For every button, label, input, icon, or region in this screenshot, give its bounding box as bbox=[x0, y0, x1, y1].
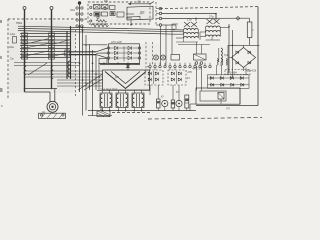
contactor contact bbox=[49, 37, 55, 40]
terminal circle bbox=[184, 65, 186, 67]
scan haze center bbox=[100, 44, 160, 90]
relay box bbox=[110, 6, 116, 10]
relay box dark bbox=[94, 12, 100, 16]
wire stub bbox=[101, 108, 103, 111]
wire bbox=[189, 104, 191, 111]
terminal circle bbox=[159, 7, 162, 10]
wire diagonal bbox=[28, 51, 49, 56]
transformer 2Тр winding bbox=[206, 31, 221, 32]
diode bbox=[171, 78, 174, 81]
wire bbox=[110, 47, 114, 49]
wire row bbox=[25, 70, 103, 72]
svg-text:АВВ-4СФ: АВВ-4СФ bbox=[246, 70, 256, 73]
fuse box bbox=[13, 37, 17, 44]
contactor contact bbox=[49, 33, 55, 36]
terminal circle bbox=[149, 65, 151, 67]
diode bbox=[115, 56, 118, 60]
relay box dark bbox=[110, 12, 115, 16]
diode bbox=[128, 56, 131, 60]
contactor contact bbox=[49, 41, 55, 44]
panel boundary dashed bottom-left bbox=[112, 112, 150, 114]
winding small bbox=[222, 59, 223, 66]
wire bbox=[49, 92, 51, 102]
transformer ТрС x106 winding R bbox=[110, 94, 112, 107]
wire bus L2 bbox=[18, 28, 184, 31]
relay panel boundary bbox=[88, 2, 150, 24]
wire bbox=[99, 62, 140, 64]
wire bbox=[178, 44, 210, 46]
wire feeder 1 bbox=[24, 10, 26, 93]
wire vertical bbox=[232, 30, 234, 78]
wire vertical bbox=[79, 4, 81, 92]
wire vertical bbox=[201, 66, 203, 91]
diode bbox=[211, 83, 214, 86]
wire to ЩУ bbox=[128, 3, 150, 5]
relay КЛ bbox=[218, 93, 224, 100]
machine base hatch bbox=[41, 113, 45, 118]
wire diagonal bbox=[28, 63, 47, 75]
terminal circle bbox=[107, 57, 109, 59]
panel ДВ step bbox=[127, 17, 140, 20]
resistor R bbox=[247, 22, 252, 38]
wire bbox=[171, 24, 173, 54]
amplifier box bbox=[103, 70, 150, 90]
bridge diode bbox=[236, 61, 239, 64]
svg-text:ЗА1: ЗА1 bbox=[70, 8, 76, 12]
bridge diode bbox=[248, 51, 251, 54]
wire bottom bbox=[196, 105, 258, 107]
base bolt bbox=[40, 114, 42, 116]
terminal circle bbox=[179, 65, 181, 67]
transformer 2Тр frame bbox=[205, 28, 207, 37]
wire row bbox=[20, 45, 71, 47]
winding ТрК bbox=[221, 48, 222, 62]
relay box hatched bbox=[102, 5, 109, 10]
transformer 1Тр core X bbox=[184, 22, 190, 27]
relay box bbox=[99, 59, 107, 64]
wire bbox=[54, 89, 56, 103]
contactor contact bbox=[22, 41, 28, 44]
diode bbox=[115, 51, 118, 55]
wire feeder 3 bbox=[66, 31, 68, 79]
panel boundary dashed top-left bbox=[8, 18, 88, 20]
wire bus L1 bbox=[18, 26, 184, 30]
boundary dashed bbox=[152, 42, 154, 66]
svg-text:1Ав: 1Ав bbox=[10, 32, 15, 36]
resistor zigzag bbox=[96, 20, 107, 23]
component box ЧАГС bbox=[194, 54, 207, 60]
panel boundary dashed bottom-right bbox=[148, 118, 262, 120]
wire bus L3 bbox=[18, 31, 184, 35]
svg-text:ДВ: ДВ bbox=[139, 11, 145, 15]
terminal circle bbox=[138, 47, 140, 49]
wire bbox=[220, 99, 222, 104]
component rect bbox=[157, 99, 161, 108]
transformer ТрС x138 winding R bbox=[142, 94, 144, 107]
winding small bbox=[217, 59, 218, 66]
transformer 1Тр winding bbox=[184, 37, 199, 38]
wire bbox=[123, 46, 125, 62]
wire stub bbox=[149, 85, 151, 95]
svg-text:ЧАГС-2Т: ЧАГС-2Т bbox=[192, 68, 202, 71]
terminal circle bbox=[50, 7, 53, 10]
wire vertical bbox=[98, 63, 100, 90]
transformer ТрС x138 frame bbox=[132, 93, 144, 108]
contactor contact bbox=[49, 53, 55, 56]
terminal circle bbox=[107, 47, 109, 49]
wire bbox=[229, 57, 232, 59]
terminal circle bbox=[169, 65, 171, 67]
bridge diamond bbox=[232, 48, 256, 68]
node dot bbox=[102, 110, 104, 112]
relay contact bbox=[97, 16, 99, 18]
wire stub bbox=[172, 85, 174, 100]
wire feeder 4 bbox=[70, 26, 72, 79]
diode row frame bbox=[208, 75, 250, 89]
wire row bbox=[57, 82, 103, 84]
node dot bbox=[134, 110, 136, 112]
transformer ТрС x106 core bbox=[104, 94, 106, 107]
node dot bbox=[118, 110, 120, 112]
diode bbox=[178, 72, 181, 75]
wire vertical bbox=[82, 26, 84, 116]
node dot bbox=[173, 29, 175, 31]
scan haze top cluster bbox=[89, 3, 149, 24]
relay box bbox=[117, 12, 124, 17]
node dot bbox=[195, 18, 197, 20]
wire bbox=[249, 14, 251, 23]
diode bbox=[126, 64, 129, 67]
wire stub bbox=[101, 90, 103, 93]
terminal circle bbox=[194, 65, 196, 67]
boundary dashed bbox=[145, 42, 147, 70]
wire bbox=[127, 63, 129, 70]
transformer 2Тр core X bbox=[207, 19, 213, 24]
wire bbox=[162, 24, 176, 26]
svg-text:ДТ: ДТ bbox=[114, 75, 119, 79]
wire bbox=[96, 52, 107, 54]
wire row bbox=[20, 42, 71, 44]
component box bbox=[171, 55, 180, 61]
wire vertical bbox=[221, 65, 223, 75]
bridge diode bbox=[248, 61, 251, 64]
terminal circle bbox=[164, 65, 166, 67]
diode bbox=[178, 78, 181, 81]
wire bbox=[126, 13, 134, 15]
relay box hatched bbox=[94, 5, 101, 10]
terminal strip dashed bbox=[155, 2, 157, 26]
wire row bbox=[20, 51, 71, 53]
contactor contact bbox=[22, 37, 28, 40]
terminal circle bbox=[199, 65, 201, 67]
component rect bbox=[185, 95, 189, 108]
diode bbox=[115, 46, 118, 50]
diode bbox=[220, 76, 223, 79]
wire bbox=[220, 62, 222, 66]
node dot bbox=[78, 1, 81, 4]
wire bbox=[208, 77, 250, 79]
machine base bbox=[39, 113, 66, 118]
wire vertical bbox=[165, 25, 167, 65]
rectifier box dashed bbox=[145, 70, 163, 85]
transformer ТрС x106 frame bbox=[100, 93, 112, 108]
wire bus thick bbox=[71, 54, 97, 56]
wire bbox=[195, 19, 197, 22]
box dashed label bbox=[225, 70, 250, 75]
motor Д middle bbox=[49, 104, 55, 110]
wire bbox=[153, 71, 155, 84]
svg-text:2Ав: 2Ав bbox=[9, 45, 14, 49]
wire row bbox=[25, 73, 103, 75]
tube РУ bbox=[176, 100, 182, 106]
cabinet box inner bbox=[200, 91, 226, 101]
scan speck bbox=[0, 88, 3, 92]
contactor contact bbox=[49, 49, 55, 52]
diode bbox=[128, 46, 131, 50]
wire vertical bbox=[228, 24, 230, 72]
terminal circle bbox=[107, 52, 109, 54]
wire stub bbox=[117, 108, 119, 111]
node dot bbox=[79, 25, 81, 27]
transformer 2Тр winding bbox=[206, 26, 221, 27]
wire feeder 2 bbox=[51, 10, 53, 89]
panel boundary dashed left bbox=[7, 19, 9, 98]
wire row bbox=[20, 33, 71, 35]
transformer 1Тр frame bbox=[183, 30, 185, 38]
svg-text:4Х: 4Х bbox=[187, 77, 190, 80]
panel ДВ outline bbox=[127, 6, 153, 20]
wire diagonal bbox=[28, 39, 49, 44]
node dot bbox=[82, 79, 84, 81]
contactor contact bbox=[65, 50, 69, 56]
diode bbox=[148, 72, 151, 75]
wire bbox=[243, 71, 245, 75]
wire row bbox=[20, 36, 71, 38]
node dot bbox=[103, 63, 105, 65]
wire stub bbox=[196, 42, 198, 54]
wire diagonal bbox=[55, 40, 71, 45]
terminal circle bbox=[90, 13, 92, 15]
wire diagonal bbox=[55, 52, 71, 56]
wire bbox=[243, 45, 245, 47]
scan speck bbox=[0, 56, 2, 59]
diode bbox=[230, 76, 233, 79]
diode bbox=[241, 83, 244, 86]
svg-text:1Тр: 1Тр bbox=[187, 18, 192, 22]
diode bbox=[128, 51, 131, 55]
wire diagonal bbox=[84, 79, 103, 90]
wire vertical bbox=[85, 35, 87, 111]
wire bbox=[176, 71, 178, 84]
amplifier V bbox=[105, 72, 146, 89]
contactor contact bbox=[22, 45, 28, 48]
wire bus thick bbox=[71, 51, 97, 53]
svg-text:2Тр: 2Тр bbox=[209, 15, 214, 19]
resistor zigzag bbox=[91, 24, 109, 27]
bridge frame bbox=[228, 44, 260, 46]
wire row bbox=[20, 57, 71, 59]
wire row bbox=[14, 62, 80, 64]
plug contact bbox=[76, 25, 78, 27]
wire vertical bbox=[239, 88, 241, 104]
wire bbox=[147, 66, 149, 68]
plug contact bbox=[76, 19, 78, 21]
terminal circle bbox=[174, 65, 176, 67]
transformer ТрС x122 winding R bbox=[126, 94, 128, 107]
wire bbox=[215, 14, 217, 21]
wire row bbox=[57, 79, 103, 81]
terminal circle bbox=[159, 65, 161, 67]
wire bbox=[83, 44, 108, 46]
wire bbox=[206, 39, 221, 41]
wire bbox=[88, 115, 112, 117]
wire row bbox=[25, 76, 103, 78]
wire bbox=[100, 64, 140, 66]
diode bbox=[240, 76, 243, 79]
cabinet box outer bbox=[196, 88, 240, 104]
scan speck bbox=[1, 105, 3, 107]
wire bbox=[200, 31, 206, 33]
transformer ТрС x106 winding L bbox=[100, 94, 102, 107]
transformer 1Тр winding bbox=[184, 33, 199, 34]
rectifier АГС box bbox=[109, 44, 140, 64]
relay coil bbox=[154, 55, 159, 60]
coil winding bbox=[68, 61, 70, 77]
contactor contact bbox=[49, 45, 55, 48]
wire vertical bbox=[196, 66, 198, 91]
wire vertical bbox=[92, 50, 94, 116]
tube КУ bbox=[162, 100, 168, 106]
diode bbox=[148, 78, 151, 81]
transformer ТрС x122 frame bbox=[116, 93, 128, 108]
contactor contact bbox=[22, 33, 28, 36]
transformer ТрС x138 core bbox=[136, 94, 138, 107]
panel boundary right bbox=[257, 7, 259, 106]
wire row bbox=[20, 48, 71, 50]
diode bbox=[210, 76, 213, 79]
contactor contact bbox=[49, 57, 55, 60]
wire stub bbox=[157, 108, 159, 111]
wire bbox=[176, 41, 198, 43]
wire bus bbox=[88, 110, 196, 112]
diode bbox=[155, 78, 158, 81]
svg-text:РЩ: РЩ bbox=[104, 0, 109, 3]
wire diagonal bbox=[78, 74, 103, 90]
amplifier V inner bbox=[111, 72, 140, 84]
transformer ТрС x138 winding L bbox=[132, 94, 134, 107]
contactor contact bbox=[22, 57, 28, 60]
relay box bbox=[102, 12, 108, 16]
motor Д outer bbox=[47, 101, 58, 112]
terminal circle bbox=[138, 57, 140, 59]
terminal circle bbox=[189, 65, 191, 67]
node dot bbox=[228, 26, 230, 28]
wire row bbox=[25, 88, 58, 90]
relay coil bbox=[161, 55, 166, 60]
wire stub bbox=[176, 37, 184, 39]
choke Др box bbox=[97, 111, 110, 117]
wire vertical bbox=[216, 65, 218, 75]
wire row bbox=[57, 85, 103, 87]
svg-text:АВВ АВН: АВВ АВН bbox=[227, 71, 237, 74]
contactor 1Ав hook bbox=[24, 62, 26, 75]
wire vertical bbox=[160, 27, 162, 66]
boundary dashed mid bbox=[75, 30, 77, 96]
svg-text:ЛЛ: ЛЛ bbox=[225, 107, 230, 111]
svg-text:АГС-10Р: АГС-10Р bbox=[111, 40, 122, 44]
wire bbox=[208, 84, 250, 86]
plug contact bbox=[195, 62, 198, 65]
bridge diode bbox=[236, 51, 239, 54]
diode bbox=[155, 72, 158, 75]
wire bbox=[96, 55, 107, 58]
diode bbox=[231, 83, 234, 86]
terminal circle bbox=[138, 52, 140, 54]
terminal circle bbox=[23, 7, 26, 10]
relay contact bbox=[104, 7, 106, 9]
wire row bbox=[14, 65, 80, 67]
wire row bbox=[20, 39, 71, 41]
wire stub bbox=[133, 108, 135, 111]
terminal circle bbox=[90, 20, 92, 22]
arrow head bbox=[128, 3, 131, 5]
wire bbox=[249, 18, 251, 22]
contactor hook bbox=[51, 66, 53, 79]
svg-text:+ПВ: +ПВ bbox=[187, 71, 192, 74]
svg-text:Св: Св bbox=[10, 57, 14, 61]
diode bbox=[221, 83, 224, 86]
scan haze left bank bbox=[9, 21, 75, 93]
component rect bbox=[171, 100, 175, 108]
wire stub bbox=[117, 90, 119, 93]
wire bbox=[162, 13, 216, 15]
panel boundary dashed top-right bbox=[160, 7, 258, 9]
wire bbox=[162, 17, 250, 19]
winding small bbox=[226, 59, 227, 66]
terminal circle bbox=[209, 65, 211, 67]
transformer ТрС x122 core bbox=[120, 94, 122, 107]
wire bbox=[110, 52, 114, 54]
node dot bbox=[24, 88, 26, 90]
transformer 1Тр winding bbox=[184, 29, 199, 30]
base bolt bbox=[62, 114, 64, 116]
terminal circle bbox=[90, 6, 92, 8]
contactor contact bbox=[22, 49, 28, 52]
svg-text:ЩУ: ЩУ bbox=[137, 0, 141, 4]
wire bus bbox=[97, 89, 150, 91]
wire vertical bbox=[95, 54, 97, 90]
plug contact bbox=[76, 13, 78, 15]
terminal circle bbox=[204, 65, 206, 67]
wire vertical bbox=[245, 68, 247, 75]
wire vertical bbox=[89, 44, 91, 90]
contactor contact bbox=[22, 53, 28, 56]
wire stub bbox=[133, 90, 135, 93]
transformer 2Тр winding bbox=[206, 35, 221, 36]
wire bbox=[96, 48, 107, 52]
plug contact bbox=[76, 7, 78, 9]
wire bbox=[25, 91, 51, 93]
wire bbox=[149, 68, 151, 70]
wire stub bbox=[130, 20, 132, 25]
transformer ТрС x122 winding L bbox=[116, 94, 118, 107]
wire bbox=[220, 27, 229, 29]
terminal circle bbox=[159, 24, 162, 27]
rectifier box dashed bbox=[168, 70, 186, 85]
motor Д dot bbox=[51, 106, 53, 108]
terminal circle bbox=[154, 65, 156, 67]
terminal circle bbox=[159, 17, 162, 20]
